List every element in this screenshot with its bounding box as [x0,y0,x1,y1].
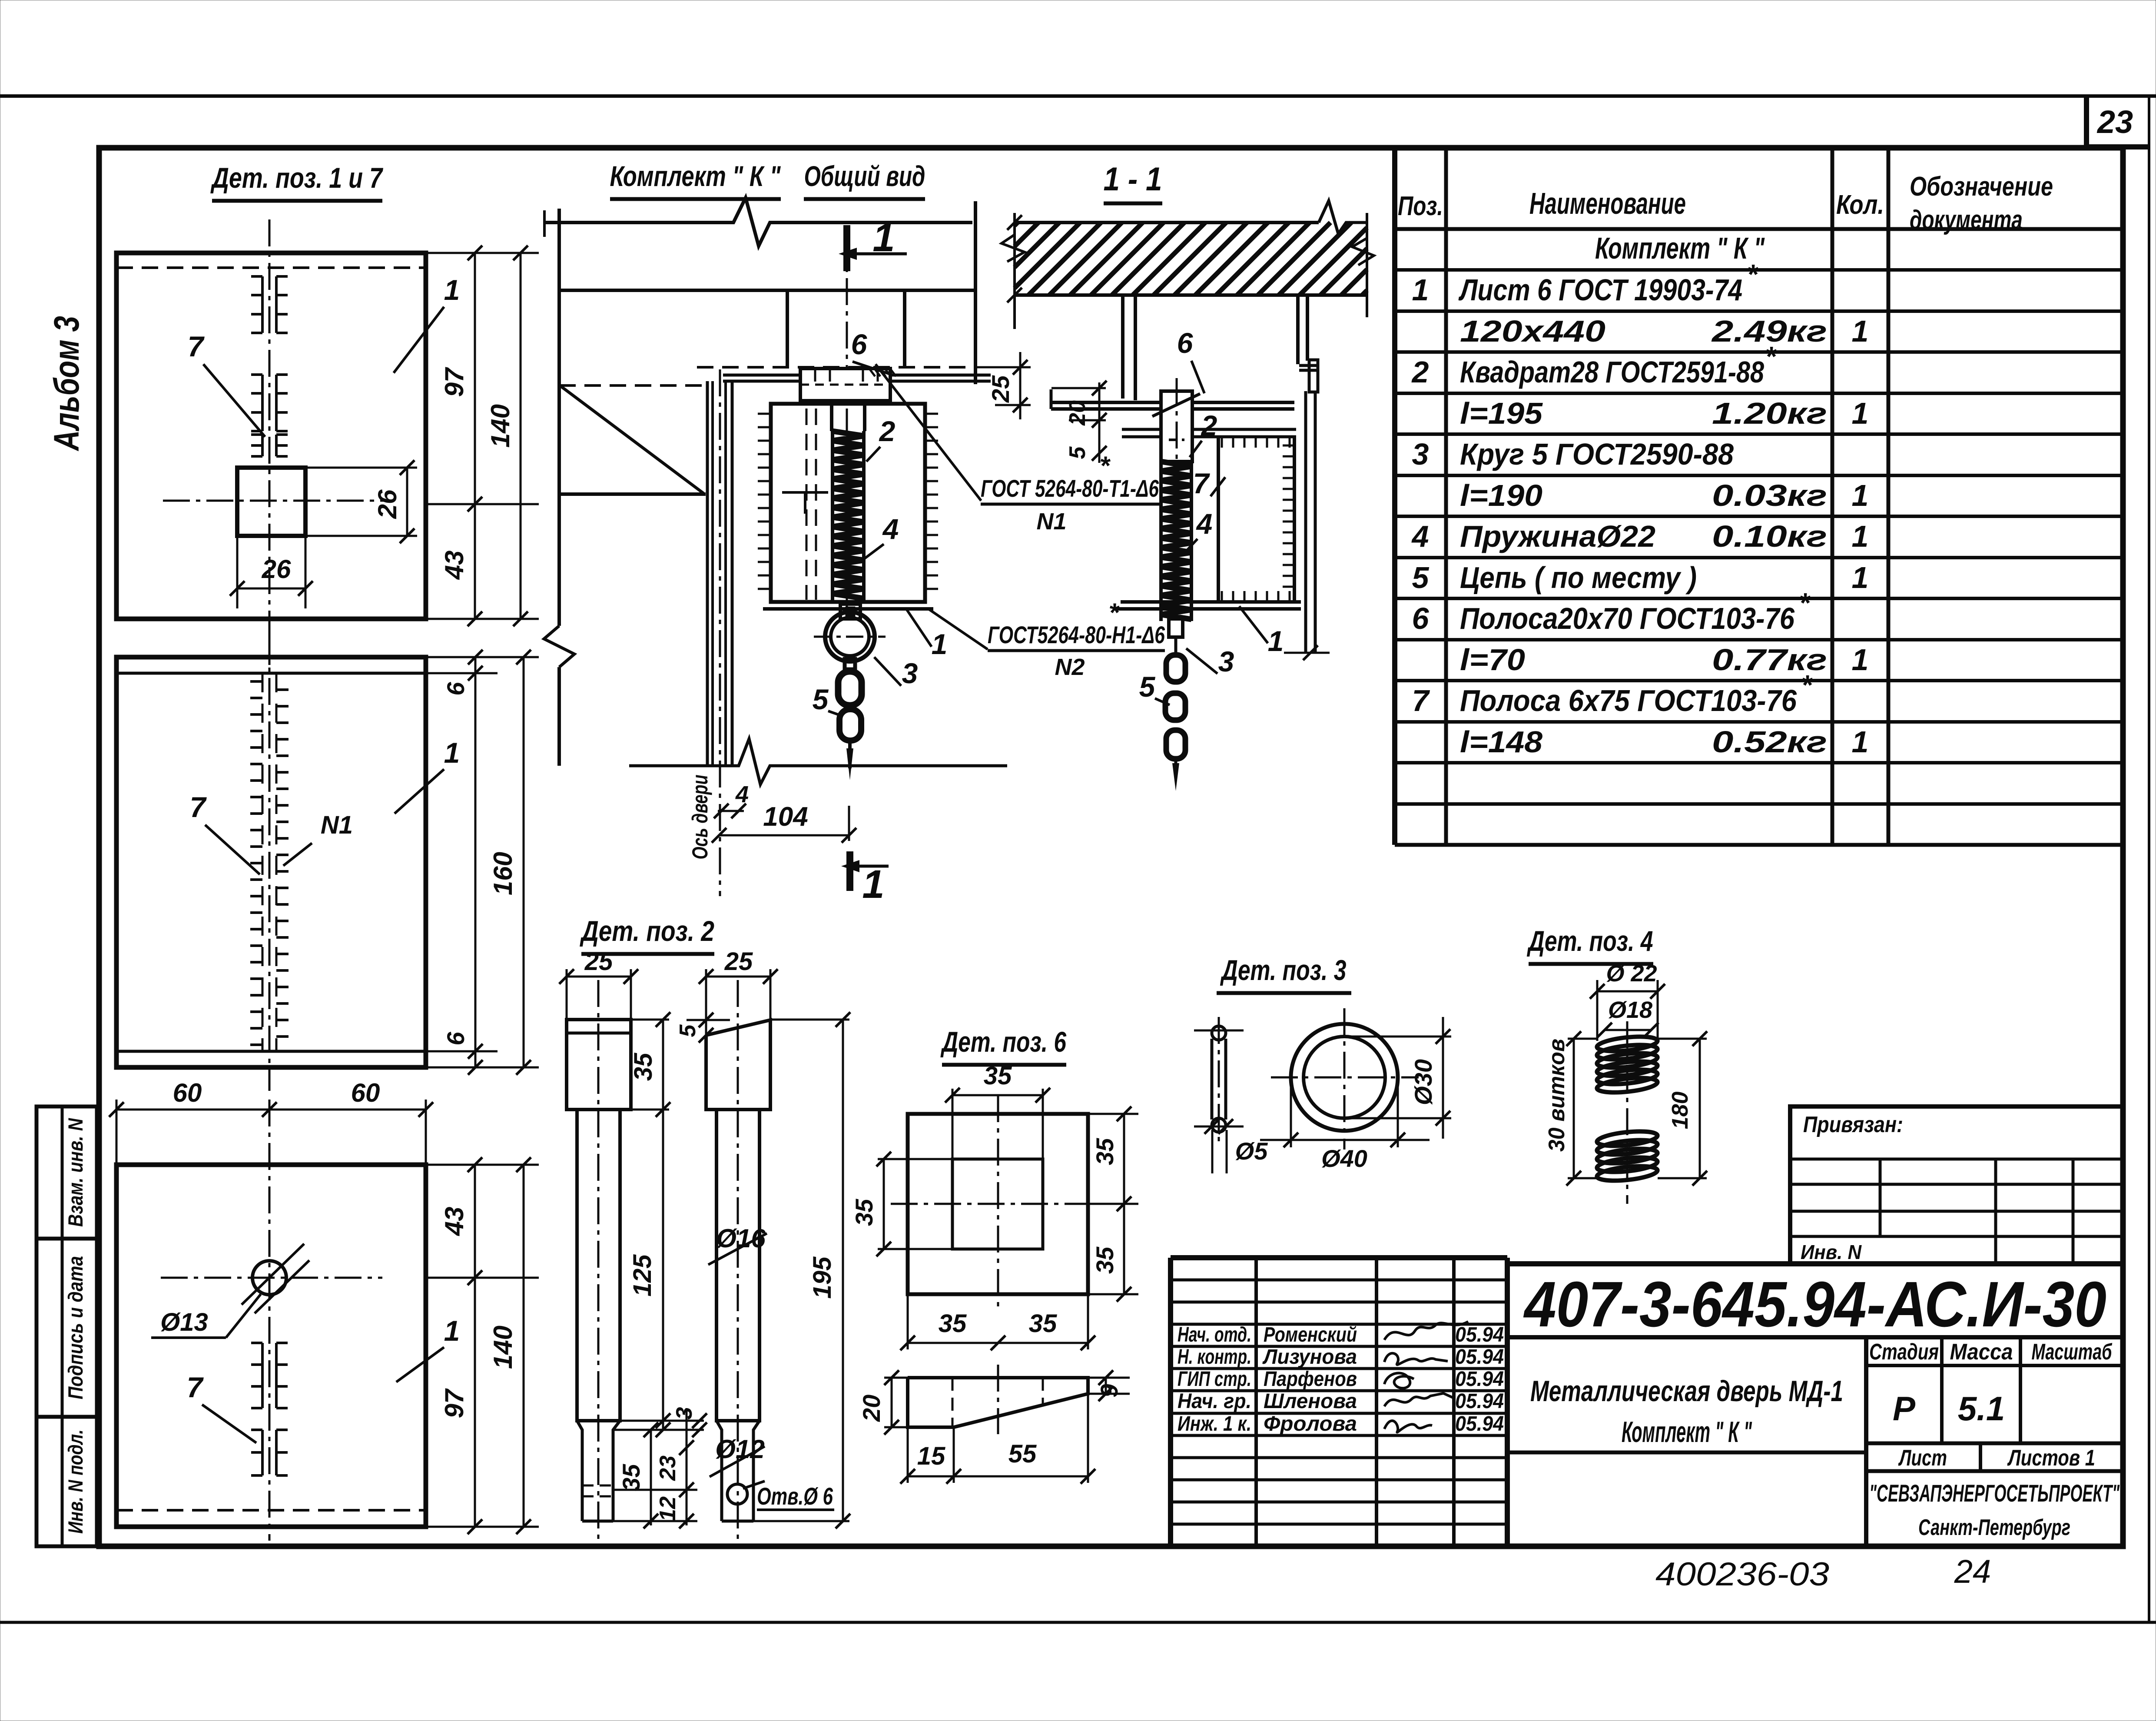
svg-text:6: 6 [1412,601,1430,635]
svg-text:7: 7 [188,330,205,362]
svg-text:0.03кг: 0.03кг [1712,478,1827,512]
svg-text:2: 2 [1411,355,1429,389]
svg-text:Масса: Масса [1950,1339,2013,1365]
svg-text:1: 1 [1852,396,1869,430]
svg-text:Подпись и дата: Подпись и дата [64,1256,87,1399]
svg-text:Ø18: Ø18 [1608,997,1652,1023]
svg-text:35: 35 [617,1464,645,1491]
svg-text:1: 1 [444,1315,460,1347]
svg-text:1.20кг: 1.20кг [1712,396,1827,430]
svg-text:24: 24 [1954,1553,1991,1590]
svg-text:Круг 5 ГОСТ2590-88: Круг 5 ГОСТ2590-88 [1460,437,1734,471]
svg-text:05.94: 05.94 [1455,1346,1504,1369]
svg-text:l=195: l=195 [1460,396,1543,430]
svg-text:Кол.: Кол. [1836,190,1884,220]
svg-text:195: 195 [808,1256,836,1299]
svg-text:*: * [1747,259,1759,290]
svg-text:N1: N1 [1036,508,1066,535]
svg-text:1: 1 [1852,314,1869,348]
svg-text:05.94: 05.94 [1455,1412,1504,1435]
svg-text:2: 2 [1201,409,1217,442]
svg-text:05.94: 05.94 [1455,1323,1504,1346]
svg-text:407-3-645.94-АС.И-30: 407-3-645.94-АС.И-30 [1523,1269,2106,1340]
svg-text:35: 35 [850,1199,878,1226]
svg-text:Лист: Лист [1898,1445,1947,1471]
svg-text:7: 7 [190,791,207,823]
svg-text:140: 140 [486,404,515,448]
svg-text:400236-03: 400236-03 [1655,1556,1829,1593]
svg-text:3: 3 [1218,645,1234,678]
svg-text:97: 97 [440,1388,469,1418]
svg-text:5: 5 [1139,671,1156,703]
svg-text:*: * [1799,587,1811,618]
svg-text:Парфенов: Парфенов [1264,1368,1357,1391]
svg-text:Дет. поз. 2: Дет. поз. 2 [580,915,714,947]
svg-text:120х440: 120х440 [1460,314,1605,348]
svg-text:05.94: 05.94 [1455,1390,1504,1413]
svg-text:Обозначение: Обозначение [1910,172,2053,202]
svg-text:Шленова: Шленова [1264,1390,1357,1413]
svg-text:6: 6 [442,1032,469,1046]
svg-text:35: 35 [984,1062,1012,1090]
svg-text:Инж. 1 к.: Инж. 1 к. [1178,1412,1251,1435]
svg-text:Ось двери: Ось двери [688,775,712,860]
svg-text:*: * [1801,669,1813,701]
svg-text:5: 5 [1412,561,1430,595]
svg-text:Ø30: Ø30 [1410,1059,1437,1105]
svg-text:Масштаб: Масштаб [2032,1339,2113,1365]
svg-text:05.94: 05.94 [1455,1368,1504,1391]
svg-text:1: 1 [872,216,895,260]
svg-text:4: 4 [735,781,749,807]
svg-text:l=70: l=70 [1460,643,1525,677]
svg-text:Ø 22: Ø 22 [1606,960,1657,987]
svg-text:0.10кг: 0.10кг [1712,519,1827,553]
svg-text:125: 125 [628,1254,657,1297]
svg-text:5: 5 [813,683,829,715]
svg-text:Дет. поз. 1 и 7: Дет. поз. 1 и 7 [210,162,384,194]
svg-text:1: 1 [932,628,948,660]
svg-text:43: 43 [440,1207,469,1236]
svg-text:Лист 6 ГОСТ 19903-74: Лист 6 ГОСТ 19903-74 [1458,273,1742,307]
svg-text:23: 23 [2096,104,2133,140]
svg-text:Ø13: Ø13 [160,1308,208,1336]
svg-text:Дет. поз. 6: Дет. поз. 6 [940,1026,1067,1058]
svg-text:4: 4 [882,513,899,545]
svg-text:15: 15 [917,1442,945,1470]
svg-text:1 - 1: 1 - 1 [1104,161,1162,198]
svg-text:1: 1 [1852,643,1869,677]
svg-text:55: 55 [1008,1440,1037,1468]
svg-text:Дет. поз. 3: Дет. поз. 3 [1220,954,1347,986]
svg-text:Н. контр.: Н. контр. [1178,1346,1251,1369]
svg-text:25: 25 [987,375,1014,403]
svg-text:180: 180 [1668,1092,1693,1130]
svg-text:Роменский: Роменский [1264,1323,1357,1346]
svg-text:140: 140 [488,1326,517,1369]
svg-text:1: 1 [1268,625,1284,657]
svg-text:ПружинаØ22: ПружинаØ22 [1460,519,1655,553]
svg-text:1: 1 [1852,478,1869,512]
svg-text:5.1: 5.1 [1958,1389,2005,1428]
svg-text:Нач. гр.: Нач. гр. [1178,1390,1251,1413]
svg-text:1: 1 [444,274,460,306]
svg-text:Полоса 6х75 ГОСТ103-76: Полоса 6х75 ГОСТ103-76 [1460,684,1797,718]
svg-text:160: 160 [488,852,517,895]
svg-text:6: 6 [851,328,868,360]
svg-text:2: 2 [879,415,896,447]
svg-text:1: 1 [1852,561,1869,595]
svg-text:35: 35 [939,1309,967,1338]
svg-text:104: 104 [763,802,808,832]
svg-text:20: 20 [1065,400,1090,426]
svg-text:7: 7 [187,1371,204,1403]
svg-text:Нач. отд.: Нач. отд. [1178,1323,1251,1346]
svg-text:6: 6 [1177,327,1194,359]
svg-text:5: 5 [675,1024,700,1037]
svg-text:Поз.: Поз. [1398,191,1443,221]
svg-text:1: 1 [444,737,460,769]
svg-text:3: 3 [672,1407,697,1419]
svg-text:7: 7 [1193,467,1211,499]
svg-text:документа: документа [1910,205,2023,235]
svg-text:Инв. N: Инв. N [1801,1241,1862,1263]
svg-text:l=190: l=190 [1460,478,1542,512]
svg-text:97: 97 [440,367,469,397]
svg-text:60: 60 [173,1078,202,1107]
svg-text:*: * [1099,451,1111,480]
svg-text:Металлическая дверь МД-1: Металлическая дверь МД-1 [1530,1375,1843,1408]
svg-text:5: 5 [1065,446,1090,459]
svg-text:N1: N1 [321,811,353,839]
svg-text:Полоса20х70 ГОСТ103-76: Полоса20х70 ГОСТ103-76 [1460,601,1795,635]
svg-text:6: 6 [442,682,469,696]
svg-text:Дет. поз. 4: Дет. поз. 4 [1527,925,1653,957]
svg-text:Стадия: Стадия [1869,1339,1939,1365]
svg-text:4: 4 [1411,519,1429,553]
svg-text:0.52кг: 0.52кг [1712,725,1827,759]
svg-text:4: 4 [1196,508,1213,540]
svg-text:26: 26 [373,489,402,519]
svg-text:25: 25 [724,947,753,976]
svg-text:20: 20 [858,1395,885,1422]
svg-text:25: 25 [584,947,613,976]
svg-text:"СЕВЗАПЭНЕРГОСЕТЬПРОЕКТ": "СЕВЗАПЭНЕРГОСЕТЬПРОЕКТ" [1869,1479,2120,1507]
svg-text:Привязан:: Привязан: [1803,1112,1903,1137]
svg-text:1: 1 [1852,519,1869,553]
svg-text:30 витков: 30 витков [1544,1039,1569,1152]
svg-text:35: 35 [1029,1309,1057,1338]
svg-text:Лизунова: Лизунова [1262,1346,1357,1369]
svg-text:35: 35 [1091,1246,1118,1274]
svg-text:43: 43 [440,551,469,580]
svg-text:l=148: l=148 [1460,725,1542,759]
svg-text:12: 12 [655,1496,680,1522]
svg-text:Отв.Ø 6: Отв.Ø 6 [757,1482,833,1510]
svg-text:1: 1 [1852,725,1869,759]
svg-text:3: 3 [1412,437,1429,471]
svg-text:Комплект " К ": Комплект " К " [1622,1415,1752,1449]
svg-text:ГОСТ5264-80-Н1-Δ6: ГОСТ5264-80-Н1-Δ6 [988,621,1165,648]
svg-text:Квадрат28 ГОСТ2591-88: Квадрат28 ГОСТ2591-88 [1460,355,1764,389]
svg-text:Листов 1: Листов 1 [2007,1445,2095,1471]
svg-text:Фролова: Фролова [1264,1412,1357,1435]
svg-text:7: 7 [1412,684,1430,718]
svg-text:Санкт-Петербург: Санкт-Петербург [1918,1515,2070,1540]
svg-text:Взам. инв. N: Взам. инв. N [64,1118,87,1227]
svg-text:23: 23 [655,1455,680,1481]
svg-text:Альбом 3: Альбом 3 [47,316,86,452]
svg-text:Общий вид: Общий вид [804,160,925,192]
svg-text:*: * [1765,341,1777,372]
svg-text:Цепь ( по месту ): Цепь ( по месту ) [1460,561,1697,595]
svg-text:1: 1 [862,862,884,907]
svg-text:Наименование: Наименование [1529,186,1686,220]
svg-text:Ø5: Ø5 [1235,1137,1268,1165]
svg-text:N2: N2 [1055,654,1085,680]
svg-text:Комплект " К ": Комплект " К " [610,160,781,192]
svg-text:60: 60 [351,1078,380,1107]
svg-text:35: 35 [1091,1138,1118,1165]
svg-text:3: 3 [902,657,918,689]
svg-text:35: 35 [629,1053,657,1081]
svg-text:26: 26 [262,555,291,584]
svg-text:Комплект " К ": Комплект " К " [1595,231,1765,265]
svg-text:Инв. N подл.: Инв. N подл. [64,1429,87,1534]
svg-text:Р: Р [1893,1389,1916,1428]
svg-text:1: 1 [1412,273,1429,307]
svg-text:ГИП стр.: ГИП стр. [1178,1368,1251,1391]
svg-text:Ø40: Ø40 [1321,1145,1367,1172]
svg-text:*: * [1108,598,1120,627]
svg-text:ГОСТ 5264-80-Т1-Δ6: ГОСТ 5264-80-Т1-Δ6 [981,475,1159,502]
